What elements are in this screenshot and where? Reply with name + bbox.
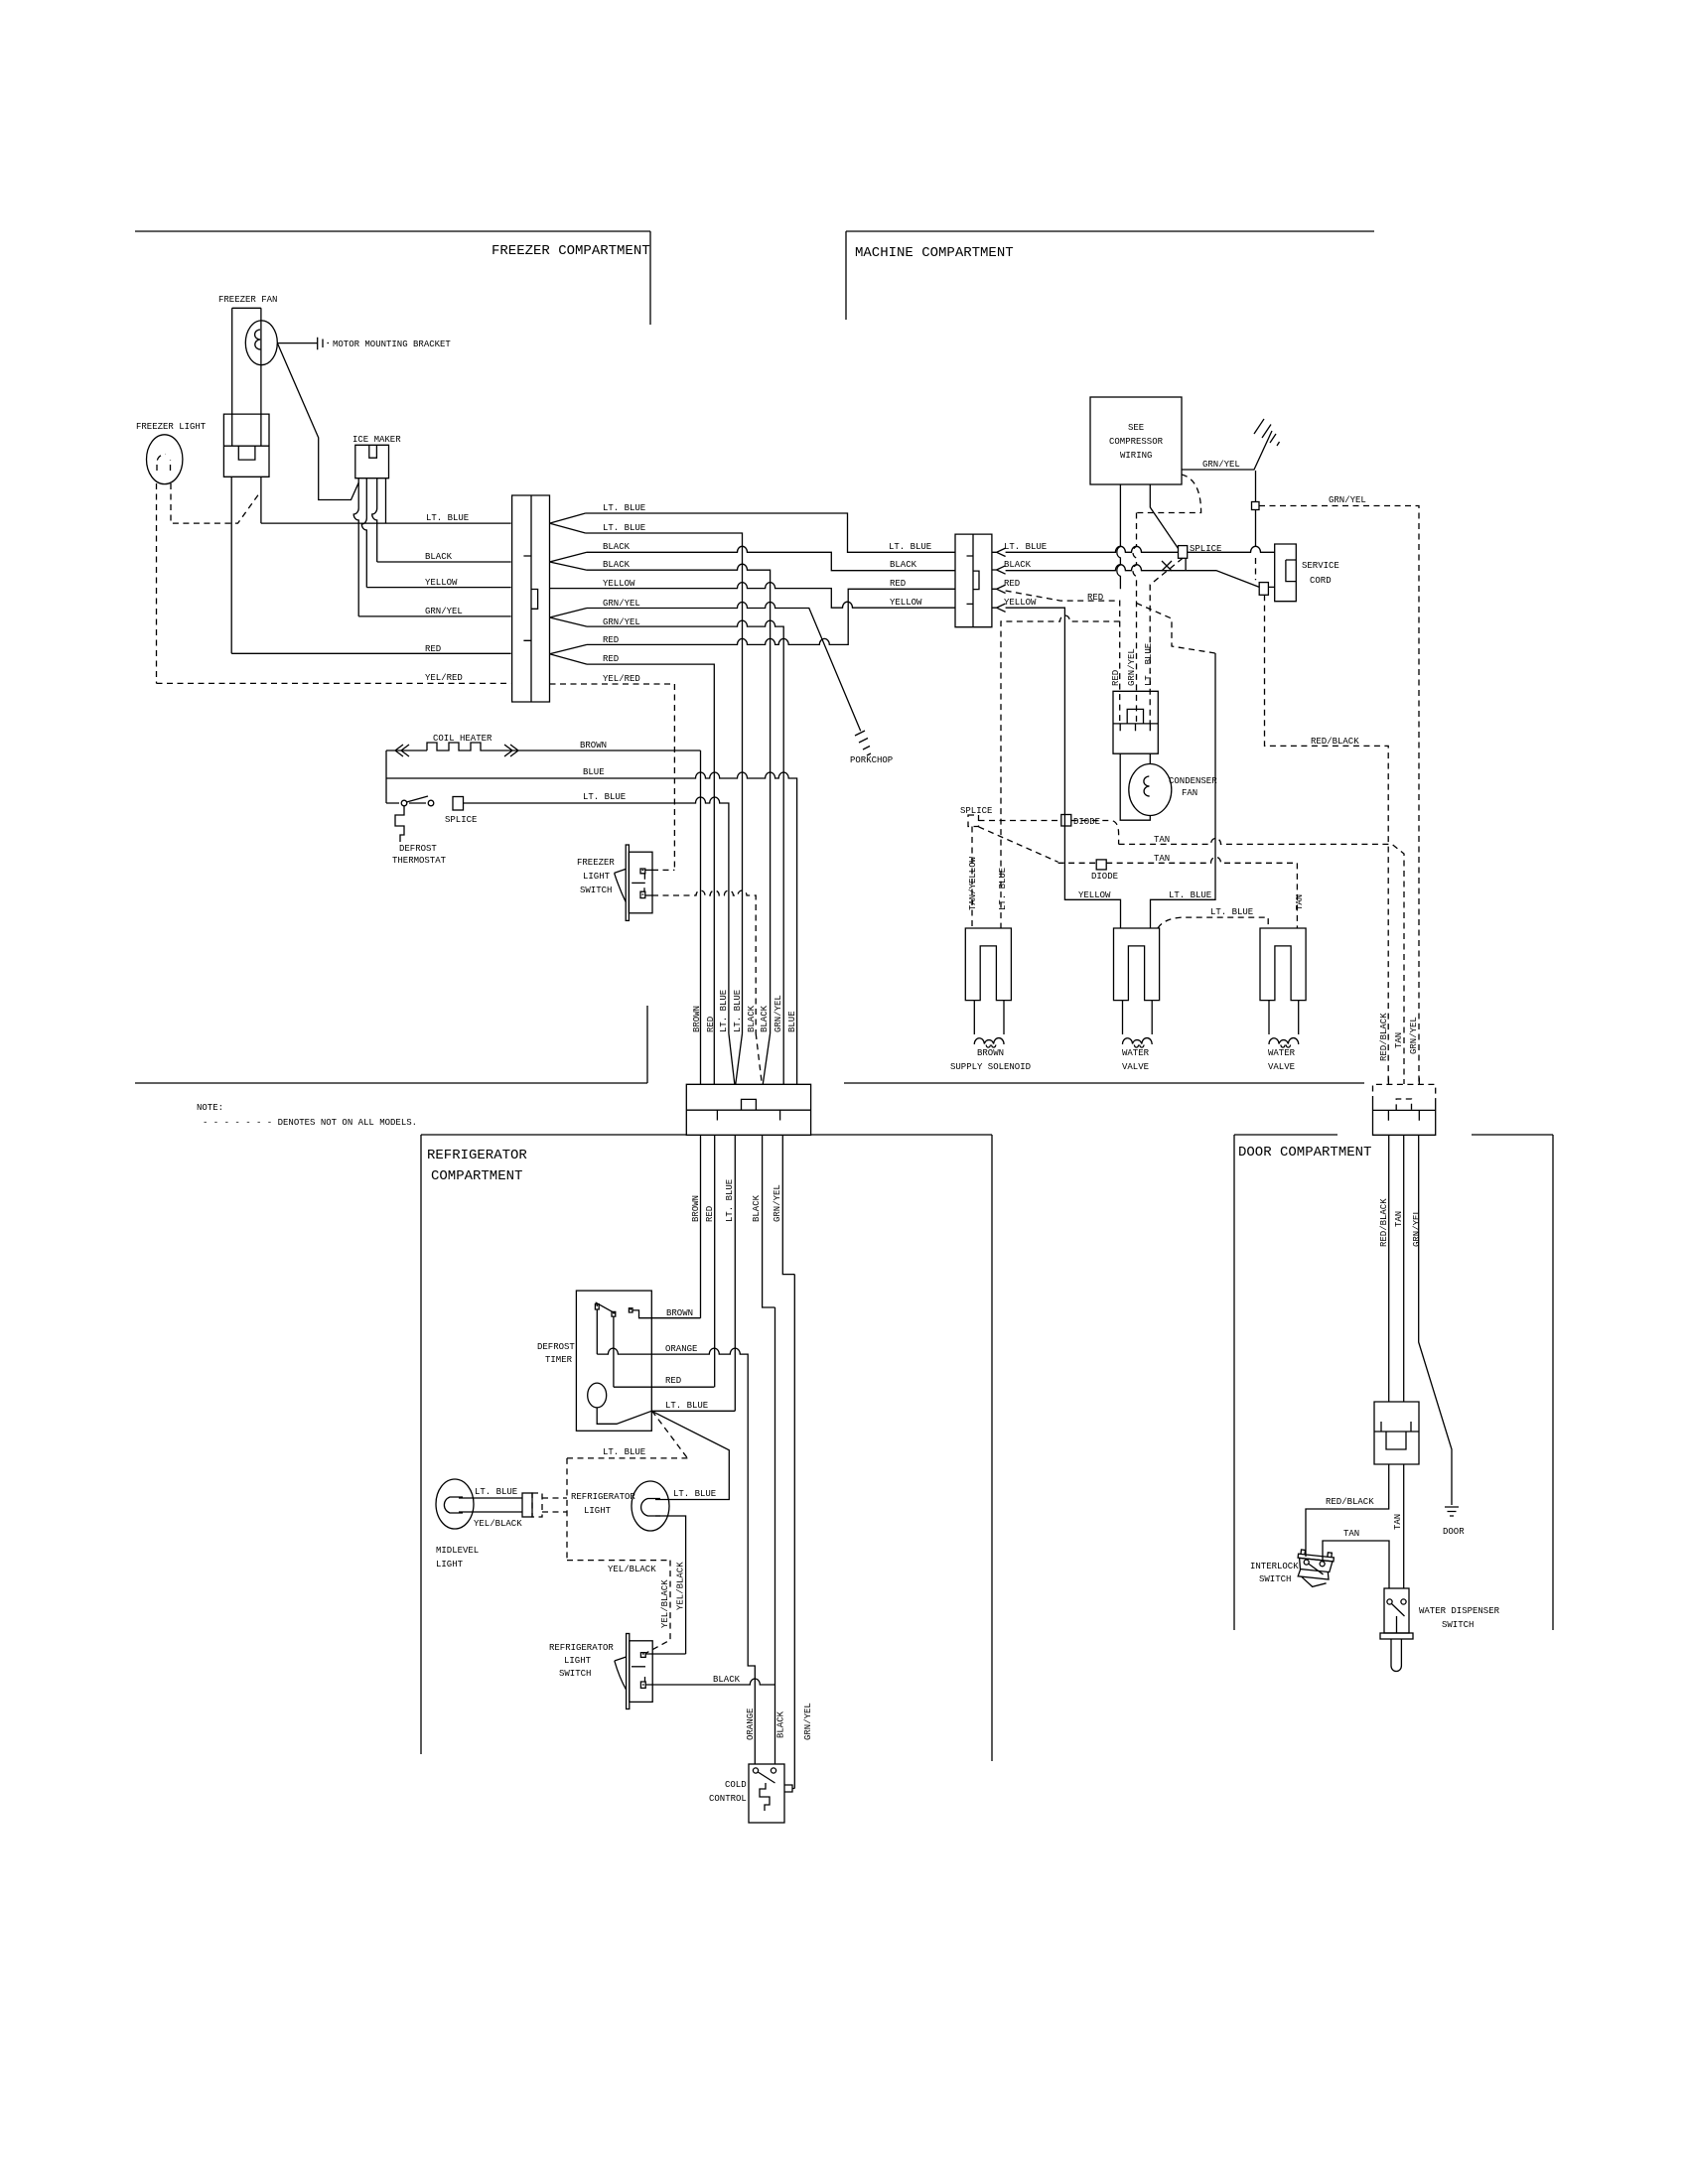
ice maker pin 4 wire (lt. blue) xyxy=(385,478,387,523)
door connector J4 body xyxy=(1373,1102,1436,1135)
freezer fan leads xyxy=(232,308,261,446)
wire LT. BLUE heater row xyxy=(386,797,729,1033)
wire RED from timer xyxy=(614,1386,714,1388)
svg-text:THERMOSTAT: THERMOSTAT xyxy=(392,856,447,866)
wire GRN/YEL freezer row xyxy=(358,615,510,617)
svg-text:ORANGE: ORANGE xyxy=(746,1708,756,1740)
label tan/yellow rotated xyxy=(968,856,978,910)
refrigerator light switch bar xyxy=(632,1666,645,1668)
compressor pin 1 wire xyxy=(1117,484,1121,589)
relay pin label lt. blue xyxy=(1144,643,1154,686)
freezer connector arrow lt. blue xyxy=(550,513,586,533)
freezer light switch body xyxy=(629,852,652,913)
svg-text:TIMER: TIMER xyxy=(545,1355,573,1365)
freezer light switch contact B xyxy=(640,887,652,897)
svg-text:MOTOR MOUNTING BRACKET: MOTOR MOUNTING BRACKET xyxy=(333,340,451,349)
label BLACK rotated below J3 xyxy=(752,1194,762,1222)
midlevel light leads xyxy=(459,1498,522,1512)
service strain square xyxy=(1259,583,1268,596)
wire BROWN from timer xyxy=(633,1310,701,1318)
svg-text:TAN: TAN xyxy=(1394,1211,1404,1227)
dashed LT. BLUE row xyxy=(567,1457,687,1459)
svg-text:TAN: TAN xyxy=(1295,894,1305,910)
svg-text:GRN/YEL: GRN/YEL xyxy=(1127,648,1137,686)
water dispenser switch lever xyxy=(1392,1604,1405,1634)
svg-text:BLUE: BLUE xyxy=(583,767,605,777)
svg-text:YEL/BLACK: YEL/BLACK xyxy=(474,1519,522,1529)
freezer light switch bar xyxy=(632,882,645,884)
label GRN/YEL rotated door xyxy=(1412,1209,1422,1247)
svg-text:YEL/BLACK: YEL/BLACK xyxy=(660,1579,670,1628)
bundle label LT. BLUE rotated xyxy=(719,990,729,1032)
cold control contact 2 xyxy=(771,1768,775,1773)
svg-text:BLACK: BLACK xyxy=(425,552,453,562)
svg-text:YELLOW: YELLOW xyxy=(1004,598,1037,608)
cold control lever xyxy=(758,1772,774,1783)
relay pin labels rotated xyxy=(1111,670,1121,686)
wire GRN/YEL upper to porkchop xyxy=(587,603,861,732)
refrigerator light bulb xyxy=(632,1481,669,1531)
svg-text:GRN/YEL: GRN/YEL xyxy=(1409,1017,1419,1054)
water dispenser switch body xyxy=(1384,1588,1409,1633)
svg-text:REFRIGERATOR: REFRIGERATOR xyxy=(427,1148,527,1163)
svg-text:BLACK: BLACK xyxy=(747,1005,757,1032)
svg-text:LIGHT: LIGHT xyxy=(583,872,611,882)
compressor wiring box xyxy=(1090,397,1182,484)
bundle black merge xyxy=(763,1033,770,1084)
relay pin label grn/yel xyxy=(1127,648,1137,686)
wire lt. blue valve vertical xyxy=(1151,653,1216,928)
motor mounting bracket wire xyxy=(277,338,323,350)
svg-text:LT. BLUE: LT. BLUE xyxy=(733,990,743,1032)
svg-text:DEFROST: DEFROST xyxy=(399,844,437,854)
water valve 2 coil stubs xyxy=(1269,1001,1299,1034)
label GRN/YEL rotated door feed xyxy=(1409,1017,1419,1054)
dashed TAN row 2 xyxy=(1058,857,1298,928)
defrost timer contact 3 xyxy=(629,1308,633,1312)
wire ORANGE from timer xyxy=(597,1309,755,1764)
wire BLACK to service square xyxy=(1006,565,1275,588)
svg-text:DEFROST: DEFROST xyxy=(537,1342,575,1352)
svg-text:RED/BLACK: RED/BLACK xyxy=(1326,1497,1374,1507)
svg-text:LT. BLUE: LT. BLUE xyxy=(889,542,931,552)
label LT. BLUE rotated below J3 xyxy=(725,1179,735,1222)
svg-text:LT. BLUE: LT. BLUE xyxy=(665,1401,708,1411)
label TAN rotated door xyxy=(1394,1211,1404,1227)
svg-text:SWITCH: SWITCH xyxy=(1442,1620,1474,1630)
svg-text:GRN/YEL: GRN/YEL xyxy=(774,995,783,1032)
svg-text:GRN/YEL: GRN/YEL xyxy=(1202,460,1240,470)
bundle label LT. BLUE 2 rotated xyxy=(733,990,743,1032)
diode1 square xyxy=(1061,815,1071,827)
ice maker pin 2 wire (yellow) xyxy=(361,478,366,588)
wire LT. BLUE to service cord xyxy=(1006,546,1275,552)
wire BLACK upper to machine xyxy=(587,546,955,570)
svg-text:TAN/YELLOW: TAN/YELLOW xyxy=(968,856,978,910)
svg-text:SUPPLY SOLENOID: SUPPLY SOLENOID xyxy=(950,1062,1031,1072)
defrost thermostat contact 2 xyxy=(428,800,434,806)
svg-text:BROWN: BROWN xyxy=(692,1006,702,1032)
dashed splice to relay lt. blue xyxy=(1150,558,1183,724)
water dispenser switch plunger xyxy=(1391,1639,1401,1672)
refrigerator light bulb inner xyxy=(641,1499,660,1517)
door connector stubs xyxy=(1388,1078,1419,1085)
machine compartment border xyxy=(844,231,1374,1083)
svg-text:ICE MAKER: ICE MAKER xyxy=(352,435,401,445)
svg-text:YEL/RED: YEL/RED xyxy=(603,674,640,684)
compressor pin 2 wire xyxy=(1150,484,1178,549)
svg-text:BROWN: BROWN xyxy=(666,1308,693,1318)
svg-text:TAN: TAN xyxy=(1394,1032,1404,1048)
svg-text:DIODE: DIODE xyxy=(1073,817,1100,827)
label YEL/BLACK rotated 1 xyxy=(660,1579,670,1628)
svg-text:WATER DISPENSER: WATER DISPENSER xyxy=(1419,1606,1500,1616)
svg-text:RED: RED xyxy=(665,1376,681,1386)
machine connector J2 xyxy=(955,534,992,627)
svg-text:LT. BLUE: LT. BLUE xyxy=(603,503,645,513)
freezer light switch contact A xyxy=(640,869,652,880)
refrigerator light switch body xyxy=(630,1641,652,1703)
wire RED/BLACK to interlock xyxy=(1306,1464,1389,1557)
freezer light bulb filament xyxy=(157,455,171,472)
freezer light switch pointer wedge xyxy=(615,869,627,901)
svg-text:SPLICE: SPLICE xyxy=(960,806,992,816)
svg-text:RED: RED xyxy=(706,1017,716,1032)
svg-text:LT. BLUE: LT. BLUE xyxy=(1004,542,1047,552)
dashed TAN row 1 xyxy=(1119,838,1404,1084)
svg-text:RED: RED xyxy=(603,635,619,645)
dashed grn/yel square to strain square xyxy=(1255,558,1257,580)
refrigerator light switch plate xyxy=(627,1634,630,1709)
svg-text:GRN/YEL: GRN/YEL xyxy=(603,599,640,609)
refrigerator connector pins below xyxy=(701,1135,795,1788)
defrost thermostat contact 1 xyxy=(401,800,407,806)
svg-text:GRN/YEL: GRN/YEL xyxy=(773,1184,782,1222)
wire RED freezer row xyxy=(231,652,510,654)
condenser fan leads xyxy=(1120,753,1150,820)
svg-text:BLACK: BLACK xyxy=(890,560,917,570)
bundle label BLACK 2 rotated xyxy=(760,1005,770,1032)
svg-text:CONTROL: CONTROL xyxy=(709,1794,747,1804)
wire LT. BLUE from timer xyxy=(651,1410,735,1412)
svg-text:YEL/RED: YEL/RED xyxy=(425,673,463,683)
dashed vertical midlevel xyxy=(566,1458,568,1561)
wire YEL/RED dashed right xyxy=(550,683,675,685)
svg-text:YELLOW: YELLOW xyxy=(603,579,635,589)
svg-text:FREEZER COMPARTMENT: FREEZER COMPARTMENT xyxy=(492,243,650,259)
svg-text:DIODE: DIODE xyxy=(1091,872,1118,882)
svg-text:ORANGE: ORANGE xyxy=(665,1344,697,1354)
defrost thermostat capillary xyxy=(395,806,404,842)
freezer fan motor coil xyxy=(255,330,261,349)
svg-text:YEL/BLACK: YEL/BLACK xyxy=(676,1562,686,1610)
svg-text:BLACK: BLACK xyxy=(603,542,631,552)
wire RED dashed to relay xyxy=(1006,591,1120,724)
label BROWN rotated below J3 xyxy=(691,1195,701,1222)
dashed splice2 to diode1 xyxy=(979,820,1061,822)
wire YELLOW to machine xyxy=(550,583,956,609)
svg-text:- - - - - - - DENOTES NOT ON A: - - - - - - - DENOTES NOT ON ALL MODELS. xyxy=(203,1118,417,1128)
svg-text:CORD: CORD xyxy=(1310,576,1332,586)
svg-text:FAN: FAN xyxy=(1182,788,1197,798)
svg-text:RED: RED xyxy=(1087,593,1103,603)
ice maker pin 1 wire (grn/yel) xyxy=(353,478,358,616)
svg-text:LT. BLUE: LT. BLUE xyxy=(603,523,645,533)
svg-text:TAN: TAN xyxy=(1154,854,1170,864)
J2 arrow black xyxy=(992,566,1006,574)
freezer fan motor M1 xyxy=(245,321,277,365)
door wires below J4 xyxy=(1389,1135,1452,1505)
dashed RED/BLACK to door xyxy=(1265,595,1389,1084)
wire lt. blue timer to refrigerator light xyxy=(651,1411,729,1499)
freezer connector arrow red xyxy=(550,644,588,664)
svg-text:LT. BLUE: LT. BLUE xyxy=(1169,890,1211,900)
dashed grn/yel compressor loop xyxy=(1133,475,1201,724)
label BLACK rotated xyxy=(776,1710,786,1738)
svg-text:VALVE: VALVE xyxy=(1122,1062,1149,1072)
svg-text:LIGHT: LIGHT xyxy=(584,1506,612,1516)
wire LT. BLUE freezer row xyxy=(261,522,511,524)
refrigerator light switch contact A xyxy=(640,1653,645,1658)
defrost timer contact 2 xyxy=(612,1311,616,1316)
water dispenser switch contact 1 xyxy=(1387,1599,1392,1604)
condenser fan motor xyxy=(1129,764,1172,816)
water dispenser switch contact 2 xyxy=(1401,1599,1406,1604)
svg-text:COLD: COLD xyxy=(725,1780,747,1790)
J2 arrow lt. blue xyxy=(992,548,1006,556)
wire GRN/YEL dashed to door xyxy=(1259,506,1419,1085)
svg-text:YELLOW: YELLOW xyxy=(425,578,458,588)
svg-text:LIGHT: LIGHT xyxy=(564,1656,592,1666)
bundle label BROWN rotated xyxy=(692,1006,702,1032)
wire BLACK from light switch xyxy=(645,1679,774,1685)
refrigerator light lead yel/black xyxy=(655,1516,686,1654)
svg-text:TAN: TAN xyxy=(1154,835,1170,845)
cold control contact 1 xyxy=(753,1768,758,1773)
dashed branch to solenoid xyxy=(1001,615,1120,928)
svg-text:LT. BLUE: LT. BLUE xyxy=(1210,907,1253,917)
J2 arrow yellow xyxy=(992,604,1006,612)
brown supply solenoid coil xyxy=(974,1038,1004,1048)
wire GRN/YEL compressor to ground xyxy=(1182,431,1272,470)
wire RED upper to machine xyxy=(587,589,955,644)
refrigerator compartment border xyxy=(421,1135,992,1761)
svg-text:DOOR: DOOR xyxy=(1443,1527,1465,1537)
refrigerator light switch contact A wire xyxy=(645,1653,685,1655)
ice maker box xyxy=(355,445,389,478)
svg-text:COMPARTMENT: COMPARTMENT xyxy=(431,1168,522,1184)
water dispenser switch flange xyxy=(1380,1633,1413,1639)
svg-text:BLACK: BLACK xyxy=(776,1710,786,1738)
svg-text:SWITCH: SWITCH xyxy=(1259,1574,1291,1584)
water valve 1 coil xyxy=(1122,1038,1152,1048)
svg-text:LT. BLUE: LT. BLUE xyxy=(583,792,626,802)
wire YELLOW to water valve xyxy=(1006,608,1121,928)
svg-text:SWITCH: SWITCH xyxy=(580,886,612,895)
svg-text:WATER: WATER xyxy=(1122,1048,1150,1058)
label YEL/BLACK rotated 2 xyxy=(676,1562,686,1610)
dashed branch to lt. blue valve line xyxy=(1137,604,1216,654)
cold control tab xyxy=(784,1785,794,1792)
freezer fan connector xyxy=(223,414,269,477)
midlevel light bulb xyxy=(436,1479,474,1529)
svg-text:BLACK: BLACK xyxy=(713,1675,741,1685)
wire BLUE row xyxy=(386,772,797,1084)
wire TAN interlock to dispenser xyxy=(1323,1541,1389,1588)
svg-text:MIDLEVEL: MIDLEVEL xyxy=(436,1546,479,1556)
dashed splice2 to diode2 xyxy=(979,827,1058,863)
water valve 1 coil stubs xyxy=(1123,1001,1153,1034)
wire YEL/RED freezer row dashed xyxy=(157,682,511,684)
svg-text:GRN/YEL: GRN/YEL xyxy=(425,607,463,616)
midlevel light bulb inner xyxy=(444,1497,463,1513)
ground hatch xyxy=(1254,419,1280,446)
interlock switch body xyxy=(1295,1550,1335,1589)
splice square xyxy=(1179,546,1188,559)
wire LT. BLUE lower drop xyxy=(586,533,743,1033)
bundle label BLACK rotated xyxy=(747,1005,757,1032)
defrost timer box xyxy=(576,1291,651,1431)
svg-text:YELLOW: YELLOW xyxy=(1078,890,1111,900)
relay overload box xyxy=(1113,691,1158,753)
svg-text:CONDENSER: CONDENSER xyxy=(1169,776,1217,786)
J2 arrow red xyxy=(992,585,1006,593)
svg-text:BLUE: BLUE xyxy=(787,1011,797,1032)
svg-text:INTERLOCK: INTERLOCK xyxy=(1250,1562,1299,1571)
svg-text:RED/BLACK: RED/BLACK xyxy=(1311,737,1359,747)
midlevel connector xyxy=(522,1493,532,1517)
svg-text:LT. BLUE: LT. BLUE xyxy=(998,868,1008,910)
defrost thermostat lever xyxy=(407,796,429,802)
wire RED lower drop xyxy=(587,664,714,1084)
svg-text:WIRING: WIRING xyxy=(1120,451,1152,461)
svg-text:LT. BLUE: LT. BLUE xyxy=(725,1179,735,1222)
svg-text:RED: RED xyxy=(425,644,441,654)
freezer connector J1 xyxy=(512,495,550,702)
svg-text:FREEZER: FREEZER xyxy=(577,858,615,868)
bundle lt. blue merge xyxy=(729,1033,743,1084)
svg-text:RED/BLACK: RED/BLACK xyxy=(1379,1013,1389,1061)
svg-text:NOTE:: NOTE: xyxy=(197,1103,223,1113)
label RED/BLACK rotated xyxy=(1379,1013,1389,1061)
freezer connector arrow black xyxy=(550,552,588,570)
svg-text:RED: RED xyxy=(1004,579,1020,589)
refrigerator light switch contact B xyxy=(640,1677,645,1688)
freezer compartment border xyxy=(135,231,650,1083)
defrost timer motor lead xyxy=(597,1408,651,1424)
label RED rotated below J3 xyxy=(705,1206,715,1222)
bundle label BLUE rotated xyxy=(787,1011,797,1032)
svg-text:LIGHT: LIGHT xyxy=(436,1560,464,1570)
dashed tan/yellow to solenoid xyxy=(971,827,973,929)
freezer connector arrow grn/yel xyxy=(550,609,588,627)
wire LT. BLUE upper to machine xyxy=(586,513,955,552)
label TAN rotated door feed xyxy=(1394,1032,1404,1048)
service cord box xyxy=(1275,544,1297,602)
svg-text:LT. BLUE: LT. BLUE xyxy=(603,1447,645,1457)
water valve 2 coil xyxy=(1269,1038,1299,1048)
brown supply solenoid coil stubs xyxy=(974,1001,1004,1034)
label RED/BLACK rotated door xyxy=(1379,1198,1389,1247)
svg-text:BROWN: BROWN xyxy=(691,1195,701,1222)
cold control bellows xyxy=(760,1783,770,1811)
svg-text:YEL/BLACK: YEL/BLACK xyxy=(608,1565,656,1574)
svg-text:YELLOW: YELLOW xyxy=(890,598,922,608)
svg-text:RED/BLACK: RED/BLACK xyxy=(1379,1198,1389,1247)
freezer light switch plate xyxy=(626,845,629,920)
wire dashed black from light switch xyxy=(652,890,756,1033)
midlevel dashed links xyxy=(542,1498,567,1512)
grn/yel square stub xyxy=(1255,471,1257,547)
svg-text:DOOR COMPARTMENT: DOOR COMPARTMENT xyxy=(1238,1145,1371,1160)
svg-text:GRN/YEL: GRN/YEL xyxy=(603,617,640,627)
svg-text:REFRIGERATOR: REFRIGERATOR xyxy=(571,1492,635,1502)
dashed diode1 to tan row xyxy=(1071,821,1119,845)
door ground xyxy=(1445,1507,1459,1516)
svg-text:LT. BLUE: LT. BLUE xyxy=(719,990,729,1032)
diode2 square xyxy=(1096,860,1106,870)
door compartment border xyxy=(1234,1135,1553,1630)
svg-text:WATER: WATER xyxy=(1268,1048,1296,1058)
label ORANGE rotated xyxy=(746,1708,756,1740)
splice square on heater row xyxy=(453,797,464,811)
coil heater left vertical xyxy=(385,751,387,803)
water valve 2 body xyxy=(1260,928,1306,1001)
svg-text:FREEZER FAN: FREEZER FAN xyxy=(218,295,277,305)
svg-text:LT. BLUE: LT. BLUE xyxy=(673,1489,716,1499)
splice stub to black row xyxy=(1185,558,1187,570)
x-mark xyxy=(1162,561,1172,571)
splice2 square xyxy=(968,815,979,827)
wire YELLOW freezer row xyxy=(366,587,510,589)
svg-text:SERVICE: SERVICE xyxy=(1302,561,1339,571)
label TAN rotated mid xyxy=(1393,1514,1403,1530)
door connector J4 dashed top xyxy=(1373,1084,1436,1110)
svg-text:BLACK: BLACK xyxy=(603,560,631,570)
svg-text:SEE: SEE xyxy=(1128,423,1144,433)
dashed lt. blue link valve1 to valve2 xyxy=(1158,917,1268,928)
condenser fan coil xyxy=(1144,776,1150,796)
svg-text:RED: RED xyxy=(603,654,619,664)
wire BLACK lower drop xyxy=(587,564,771,1033)
door mid connector xyxy=(1374,1402,1419,1464)
wire TAN to dispenser xyxy=(1403,1464,1405,1588)
svg-text:RED: RED xyxy=(1111,670,1121,686)
svg-text:LT. BLUE: LT. BLUE xyxy=(1144,643,1154,686)
bundle black dashed merge xyxy=(756,1033,762,1084)
bundle label RED rotated xyxy=(706,1017,716,1032)
refrigerator connector J3 xyxy=(686,1084,810,1135)
grn/yel square xyxy=(1252,502,1260,510)
svg-text:GRN/YEL: GRN/YEL xyxy=(1329,495,1366,505)
defrost timer lever xyxy=(596,1302,616,1313)
coil heater element xyxy=(386,743,701,1084)
label GRN/YEL rotated below J3 xyxy=(773,1184,782,1222)
svg-text:GRN/YEL: GRN/YEL xyxy=(803,1703,813,1740)
svg-text:RED: RED xyxy=(890,579,906,589)
brown supply solenoid body xyxy=(965,928,1011,1001)
motor mounting bracket dot xyxy=(328,342,330,344)
svg-text:GRN/YEL: GRN/YEL xyxy=(1412,1209,1422,1247)
defrost timer contact 1 xyxy=(595,1304,599,1309)
freezer light bulb xyxy=(147,435,183,484)
wire dashed yel/red to light switch xyxy=(652,684,674,870)
svg-text:SPLICE: SPLICE xyxy=(445,815,477,825)
label lt. blue rotated solenoid xyxy=(998,868,1008,910)
ground wire from motor to ice maker xyxy=(278,343,359,499)
freezer light lead 1 dashed xyxy=(156,483,158,683)
ice maker pin 3 wire (black) xyxy=(372,478,377,562)
